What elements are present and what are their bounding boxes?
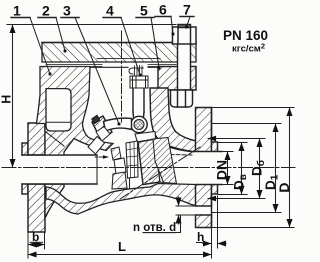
seat ring	[153, 138, 177, 184]
step block hatched	[111, 147, 121, 160]
callout 1	[11, 3, 51, 76]
cover top edge	[42, 42, 196, 44]
bolt circle upper pointer	[208, 138, 265, 140]
svg-text:Dв: Dв	[232, 174, 250, 190]
raised face right	[212, 142, 218, 194]
bore bottom line	[22, 183, 97, 185]
svg-text:4: 4	[106, 3, 114, 19]
stem guide box	[130, 76, 148, 88]
nut top facets	[177, 27, 179, 44]
dimension Db	[259, 139, 261, 199]
svg-text:3: 3	[63, 3, 71, 19]
outlet bore lines	[196, 151, 222, 153]
svg-text:1: 1	[13, 3, 21, 19]
dimension H line	[12, 25, 14, 168]
svg-text:5: 5	[140, 3, 148, 19]
svg-text:6: 6	[159, 2, 167, 18]
cover slab	[42, 43, 196, 63]
top extension line	[7, 24, 176, 26]
disc hub stack	[126, 141, 138, 178]
raised face bore white	[211, 152, 219, 184]
stud slot through flange white	[178, 66, 191, 91]
left flange plate lower	[28, 184, 45, 232]
bore top line	[22, 154, 97, 156]
guide rib line	[129, 178, 131, 188]
hub slope contour	[46, 132, 64, 146]
hinge arm band	[104, 118, 132, 131]
bore end edge	[96, 155, 98, 184]
svg-text:DN: DN	[214, 160, 230, 180]
arm pivot bracket	[92, 116, 112, 140]
d extension lines	[176, 205, 196, 207]
callout 3	[61, 3, 120, 126]
outlet channel top wall lower edge	[166, 146, 196, 152]
L extension right	[211, 228, 213, 259]
nut bottom	[171, 90, 193, 107]
svg-text:L: L	[118, 239, 126, 254]
b extension lines	[27, 232, 29, 258]
flange face edges	[211, 108, 213, 143]
hidden line arrow	[95, 156, 104, 158]
step block outline	[114, 158, 126, 174]
right neck wall band	[150, 88, 196, 152]
disc holder cap	[135, 132, 156, 143]
dimension D	[289, 108, 291, 228]
callout 6	[155, 2, 174, 36]
h extension lines	[211, 229, 213, 248]
dimension L	[28, 254, 212, 256]
bottom body band	[46, 184, 196, 215]
h label underline	[197, 242, 206, 244]
dimension b	[28, 244, 45, 246]
cover under step line	[97, 58, 160, 60]
b label underline	[30, 241, 43, 243]
bonnet flange far edge line	[90, 66, 128, 68]
disc face ring	[155, 139, 164, 183]
outlet flange bolt hole white	[195, 206, 213, 215]
stem upper pins	[133, 66, 144, 77]
dimension DN	[227, 152, 229, 185]
outlet flange plate	[196, 108, 212, 228]
disc plate	[138, 139, 160, 185]
svg-text:h: h	[197, 230, 204, 244]
svg-text:Dб: Dб	[250, 160, 268, 176]
stem packing clip	[129, 68, 133, 74]
cover stud slot white	[178, 42, 191, 64]
hinge pin circle	[131, 116, 147, 132]
d arrows outside	[178, 197, 180, 206]
left flange raised face	[22, 143, 28, 194]
center line horizontal	[2, 167, 295, 169]
svg-text:7: 7	[183, 2, 191, 18]
left flange plate upper	[28, 123, 45, 155]
hinge pin inner	[134, 120, 144, 130]
callout 7	[180, 2, 194, 29]
svg-text:D: D	[276, 182, 292, 192]
gasket lines	[46, 64, 102, 66]
cavity ledge line	[46, 121, 71, 123]
stem column	[133, 82, 144, 117]
callout 4	[103, 3, 141, 77]
sump boss	[112, 172, 127, 189]
svg-text:H: H	[0, 95, 13, 104]
dimension Dv	[241, 143, 243, 195]
dimension h arrows outside	[203, 243, 212, 245]
bolt hole edges	[196, 205, 212, 207]
inlet bore white	[21, 156, 98, 184]
arm pivot cap dark	[92, 116, 100, 124]
stud shank	[178, 28, 191, 90]
callout 5	[136, 3, 160, 70]
latch outline	[88, 137, 105, 155]
center line vertical of stem	[121, 31, 123, 122]
svg-text:кгс/см2: кгс/см2	[232, 42, 265, 55]
inlet hub lower wedge	[45, 184, 64, 218]
body left wall and flange band	[37, 67, 114, 156]
svg-text:2: 2	[42, 3, 50, 19]
dimension D1	[275, 124, 277, 213]
n otv d leader stem	[143, 215, 181, 233]
disc stop bracket outline	[96, 127, 110, 142]
body cavity white	[46, 89, 71, 131]
right dimension extension lines	[205, 108, 294, 228]
disc hub lines	[126, 142, 138, 178]
nut top	[173, 27, 197, 44]
callout 2	[38, 3, 66, 53]
disc axis diagonal center line	[120, 147, 200, 199]
body upper flange band right	[158, 67, 196, 91]
outlet flange bore white	[195, 152, 219, 184]
outlet channel hidden seat dashes	[170, 154, 192, 157]
stud cap	[178, 25, 191, 28]
nut bottom facets	[177, 90, 179, 107]
bolt circle lower pointer	[208, 198, 265, 200]
